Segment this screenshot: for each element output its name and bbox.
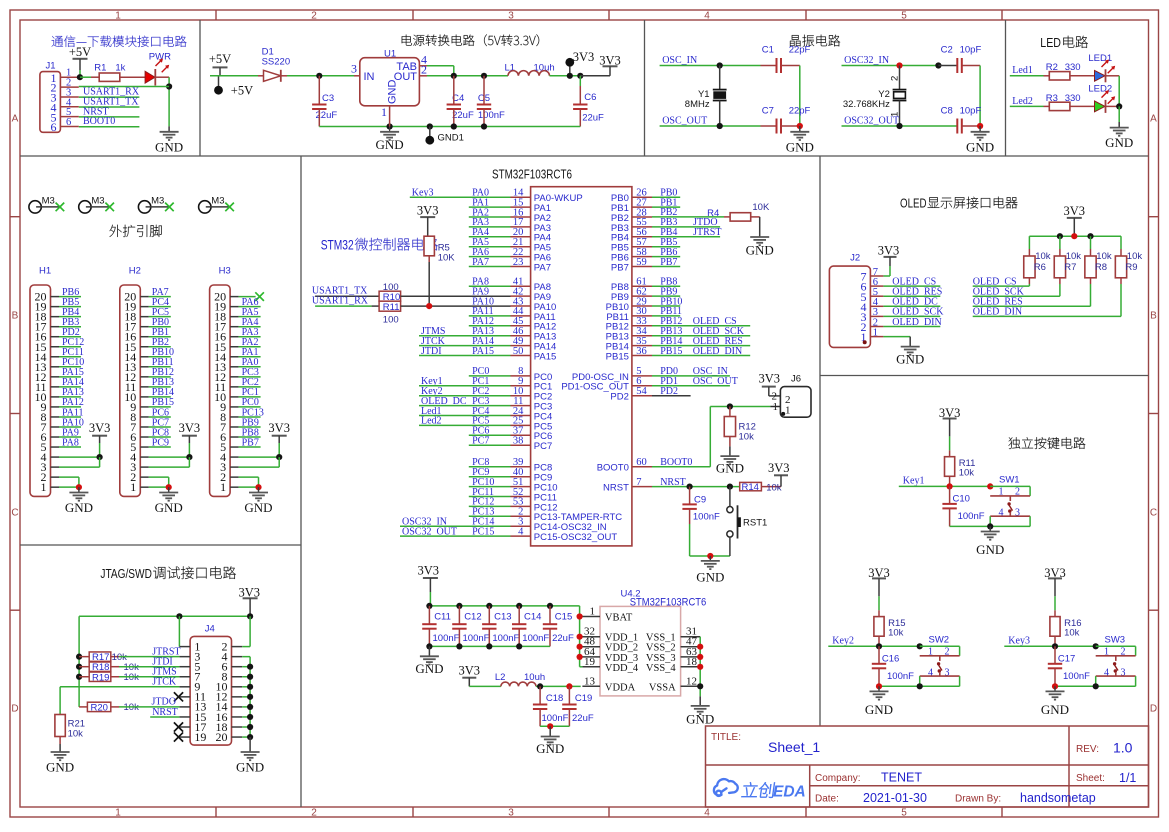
- capacitor C10 100nF: [942, 486, 984, 526]
- net label PA7 / wire H2 pin 20: [149, 287, 171, 298]
- svg-text:JTCK: JTCK: [152, 677, 177, 688]
- svg-text:R6: R6: [1034, 262, 1046, 273]
- wire H1 pin3: [59, 457, 100, 467]
- net label PA0 / wire H3 pin 13: [239, 357, 261, 368]
- switch SW1: [990, 475, 1030, 527]
- svg-text:C2: C2: [941, 45, 953, 56]
- svg-text:PC15-OSC32_OUT: PC15-OSC32_OUT: [534, 532, 618, 543]
- U4 pin 44 PA11 (left): [511, 306, 556, 323]
- svg-text:PB7: PB7: [611, 262, 629, 273]
- ground GND (SW2): [865, 686, 893, 717]
- svg-text:C: C: [11, 508, 18, 519]
- resistor R1 1k: [91, 62, 145, 81]
- wire bus down to J4 pin1: [178, 616, 180, 646]
- capacitor C14 100nF: [512, 606, 549, 647]
- U4 pin 33 PB12 (right): [606, 316, 652, 333]
- junction bus red (3V3): [1071, 233, 1077, 239]
- net label PB12 OLED_CS / wire: [652, 316, 750, 327]
- net label PA14 / wire H1 pin 11: [59, 377, 84, 388]
- svg-text:SW1: SW1: [999, 475, 1020, 486]
- net label PA8 / wire: [469, 277, 511, 288]
- inductor L1 10uh: [505, 63, 555, 76]
- power bar 3V3 (decoupling bus): [418, 564, 440, 606]
- svg-text:GND: GND: [865, 702, 893, 717]
- svg-text:22pF: 22pF: [789, 45, 811, 56]
- svg-text:R9: R9: [1125, 262, 1137, 273]
- power bar 3V3 (J6): [759, 371, 781, 396]
- mounting hole M3-4: [199, 196, 234, 214]
- ground GND (VDDA filter): [536, 726, 564, 756]
- svg-text:1.0: 1.0: [1113, 740, 1133, 756]
- net label OSC32_IN / wire: [842, 55, 939, 66]
- net label PB13 / wire H2 pin 11: [149, 377, 174, 388]
- net label PA5 / wire H3 pin 18: [239, 307, 261, 318]
- U4 pin 46 PA13 (left): [511, 326, 557, 343]
- power bar 3V3 (J2): [878, 244, 900, 267]
- svg-text:32.768KHz: 32.768KHz: [843, 99, 890, 110]
- junction J1 pin2 net: [166, 83, 172, 89]
- U4 pin 9 PC1 (left): [511, 376, 553, 393]
- svg-text:PC7: PC7: [534, 441, 552, 452]
- net label PA3 / wire H3 pin 16: [239, 327, 261, 338]
- svg-text:H3: H3: [219, 266, 231, 277]
- wire J4 right bus to GND: [242, 616, 250, 737]
- U4 pin 24 PC4 (left): [511, 406, 553, 423]
- junction J4 right bus y=666.7: [247, 664, 253, 670]
- capacitor C17 100nF: [1048, 646, 1090, 686]
- net label PA10 / wire H1 pin 7: [59, 417, 84, 428]
- U4.2 pin 48 VDD_2: [582, 636, 638, 654]
- net label PC10 / wire: [469, 477, 511, 488]
- junction C16 top: [876, 643, 882, 649]
- net label Led2 / wire PC5: [419, 416, 511, 427]
- ground GND (SW1): [976, 526, 1004, 557]
- block title 晶振电路: [790, 35, 840, 47]
- net label Key1 / wire PC1: [419, 376, 511, 387]
- junction C4: [451, 73, 457, 79]
- wire JTAG top bus: [79, 615, 250, 617]
- wire J2 pin1 to GND: [883, 336, 910, 338]
- svg-text:1: 1: [130, 480, 136, 494]
- net label OLED_DIN / wire J2 pin 2: [883, 317, 941, 328]
- junction VSSA: [697, 683, 703, 689]
- svg-text:10k: 10k: [1064, 627, 1080, 638]
- svg-text:GND: GND: [65, 500, 93, 515]
- connector H1: [30, 266, 59, 497]
- U4 pin 37 PC6 (left): [511, 426, 553, 443]
- svg-text:10pF: 10pF: [960, 45, 982, 56]
- net label PB10 / wire H2 pin 14: [149, 347, 174, 358]
- junction C19 top red: [566, 683, 572, 689]
- U4.2 pin 31 VSS_1: [646, 626, 700, 644]
- U4 pin 61 PB8 (right): [611, 277, 652, 294]
- svg-text:54: 54: [636, 386, 647, 397]
- svg-text:3: 3: [351, 62, 357, 76]
- net label PB1 / wire: [652, 197, 680, 208]
- net label PA9: [472, 286, 489, 297]
- junction C5: [481, 73, 487, 79]
- junction C4 bottom: [451, 123, 457, 129]
- capacitor C2 10pF: [938, 45, 981, 74]
- U4 pin 45 PA12 (left): [511, 316, 557, 333]
- net label NRST / wire J1-5: [79, 106, 140, 117]
- svg-text:M3: M3: [151, 196, 164, 207]
- svg-text:D: D: [1150, 704, 1157, 715]
- connector J2: [829, 253, 883, 348]
- svg-text:2: 2: [311, 11, 317, 22]
- wire J1-1 to R1: [80, 76, 91, 78]
- svg-text:60: 60: [636, 457, 647, 468]
- svg-text:+5V: +5V: [209, 52, 231, 66]
- wire L1 to 3V3 node: [550, 75, 581, 77]
- ground GND (J2): [896, 337, 924, 367]
- svg-text:Company:: Company:: [815, 773, 861, 784]
- net label PC9 / wire: [469, 467, 511, 478]
- net label Led1 / wire: [1010, 65, 1044, 76]
- svg-text:R4: R4: [707, 208, 719, 219]
- net label PB14 / wire H2 pin 10: [149, 387, 174, 398]
- U4 pin 51 PC10 (left): [511, 477, 558, 494]
- junction Y1 top: [717, 62, 723, 68]
- junction rail x=519.2: [516, 643, 522, 649]
- wire H1 pin1: [59, 486, 79, 488]
- svg-text:Led2: Led2: [1012, 96, 1033, 107]
- mounting hole M3-3: [138, 196, 173, 214]
- svg-text:GND: GND: [1105, 135, 1133, 150]
- svg-text:7: 7: [636, 477, 641, 488]
- svg-text:SW3: SW3: [1105, 635, 1126, 646]
- svg-text:VSS_4: VSS_4: [646, 663, 677, 674]
- svg-text:100nF: 100nF: [958, 511, 985, 522]
- U4 pin 25 PC5 (left): [511, 416, 553, 433]
- svg-text:USART1_RX: USART1_RX: [312, 295, 369, 306]
- svg-text:NRST: NRST: [152, 707, 178, 718]
- capacitor C11 100nF: [422, 606, 459, 647]
- U4 pin 6 PD1 (right): [561, 376, 652, 393]
- svg-text:3V3: 3V3: [573, 50, 595, 64]
- wire C2 to GND corner: [979, 66, 981, 127]
- junction SW3 pin1: [1093, 643, 1099, 649]
- wire J2 pin7 to 3V3: [883, 266, 890, 276]
- svg-text:6: 6: [51, 120, 57, 134]
- U4 pin 40 PC9 (left): [511, 467, 553, 484]
- resistor R21 10k: [55, 715, 85, 745]
- svg-text:GND: GND: [786, 140, 814, 155]
- wire H3 pin3: [239, 457, 280, 467]
- U4 pin 54 PD2 (right): [610, 386, 652, 403]
- svg-text:A: A: [12, 114, 19, 125]
- junction rail red (C18): [547, 723, 553, 729]
- svg-text:10pF: 10pF: [960, 105, 982, 116]
- svg-text:20: 20: [216, 730, 228, 744]
- U4 pin 22 PA6 (left): [511, 247, 552, 264]
- net label PB4 / wire H1 pin 18: [59, 307, 81, 318]
- net label OLED_RES / wire to R8: [973, 297, 1091, 308]
- wire decoupling ground rail: [429, 645, 550, 647]
- junction rail x=459.4: [456, 643, 462, 649]
- svg-text:Key2: Key2: [832, 636, 854, 647]
- junction cap bottom red (C17): [1052, 683, 1058, 689]
- junction bus J4 pin1: [176, 613, 182, 619]
- svg-text:GND: GND: [46, 760, 74, 775]
- junction bus C14: [516, 603, 522, 609]
- capacitor C8 10pF: [941, 105, 982, 133]
- net label PA2 / wire: [469, 207, 511, 218]
- wire LED1 down to LED2 node: [1118, 76, 1120, 107]
- net flag +5V ball: [214, 76, 253, 98]
- ground GND (R4): [746, 217, 774, 258]
- svg-text:GND: GND: [155, 140, 183, 155]
- power flag +5V (J1): [69, 45, 91, 77]
- junction Y2 top red: [896, 62, 902, 68]
- net label PB8 / wire H3 pin 6: [239, 427, 261, 438]
- power bar 3V3 (power block): [599, 54, 621, 76]
- U4 pin 11 PC3 (left): [511, 396, 553, 413]
- ground GND (Y1): [786, 126, 814, 155]
- net label PC3 / wire H3 pin 12: [239, 367, 261, 378]
- block title LED电路: [1040, 36, 1088, 50]
- capacitor C5 100nF: [477, 76, 505, 127]
- svg-text:C19: C19: [575, 693, 592, 704]
- net label PA2 / wire H3 pin 15: [239, 337, 261, 348]
- junction on J1 pin1: [77, 74, 83, 80]
- net label PA15 / wire H1 pin 12: [59, 367, 84, 378]
- wire H2 pin4 to 3V3: [149, 456, 190, 458]
- U4.2 pin 47 VSS_2: [646, 636, 700, 654]
- diode D1 SS220: [258, 47, 290, 82]
- U4 pin 21 PA5 (left): [511, 237, 552, 254]
- net label Key1 / wire: [899, 476, 990, 487]
- svg-text:3V3: 3V3: [759, 371, 781, 385]
- net label OLED_SCK / wire to R7: [973, 287, 1060, 298]
- svg-text:J6: J6: [791, 374, 801, 385]
- net label PA3 / wire: [469, 217, 511, 228]
- wire U1 TAB to OUT node: [427, 66, 454, 76]
- svg-text:10k: 10k: [1035, 251, 1051, 262]
- net label PA13 / wire H1 pin 10: [59, 387, 84, 398]
- net flag 3V3 ball: [565, 50, 594, 79]
- power bar 3V3 (R5): [417, 204, 439, 237]
- wire 3V3 to L2: [469, 685, 501, 687]
- svg-text:GND: GND: [155, 500, 183, 515]
- junction H1 GND red: [76, 484, 82, 490]
- svg-text:100nF: 100nF: [478, 110, 505, 121]
- svg-text:3V3: 3V3: [878, 244, 900, 258]
- svg-text:C11: C11: [434, 612, 451, 623]
- svg-text:GND: GND: [415, 661, 443, 676]
- junction C17 top: [1052, 643, 1058, 649]
- svg-text:3V3: 3V3: [1064, 204, 1086, 218]
- svg-text:4: 4: [704, 11, 710, 22]
- U4 pin 27 PB1 (right): [611, 197, 652, 214]
- svg-text:10k: 10k: [1127, 251, 1143, 262]
- U4 pin 53 PC12 (left): [511, 497, 558, 514]
- svg-text:10k: 10k: [68, 728, 84, 739]
- svg-text:1: 1: [590, 606, 596, 618]
- svg-text:C6: C6: [584, 92, 596, 103]
- svg-text:5: 5: [901, 11, 907, 22]
- svg-text:C7: C7: [762, 105, 774, 116]
- svg-text:GND: GND: [536, 741, 564, 756]
- svg-text:GND: GND: [976, 542, 1004, 557]
- net label USART1_RX / wire J1-3: [79, 87, 140, 98]
- inductor L2 10uh: [495, 672, 545, 687]
- svg-text:IN: IN: [364, 71, 375, 83]
- net label PB4 JTRST / wire: [652, 227, 721, 238]
- regulator U1: [351, 48, 427, 119]
- capacitor C16 100nF: [872, 646, 914, 686]
- net label OLED_CS / wire to R6: [973, 276, 1030, 287]
- net label PA11 / wire H1 pin 8: [59, 407, 84, 418]
- switch SW3: [1096, 635, 1136, 687]
- ground GND (H1): [65, 487, 93, 515]
- junction J4 right bus y=676.75: [247, 674, 253, 680]
- U4 pin 17 PA3 (left): [511, 217, 552, 234]
- resistor R7 10k: [1054, 236, 1081, 296]
- svg-text:PA7: PA7: [534, 262, 551, 273]
- junction J4 right bus y=696.85: [247, 694, 253, 700]
- svg-text:GND: GND: [387, 80, 399, 105]
- net label PB15 / wire H2 pin 9: [149, 397, 174, 408]
- svg-text:3V3: 3V3: [768, 461, 790, 475]
- U4.2 pin 32 VDD_1: [582, 626, 638, 644]
- svg-text:4: 4: [704, 808, 710, 819]
- net label PB7 / wire: [652, 257, 680, 268]
- ground GND (H2): [155, 487, 183, 515]
- svg-text:8MHz: 8MHz: [685, 99, 710, 110]
- no-connect X J4 pin 11: [174, 692, 183, 701]
- svg-text:VSSA: VSSA: [649, 682, 676, 693]
- net label OLED_SCK / wire J2 pin 3: [883, 307, 944, 318]
- capacitor C1 22pF: [761, 45, 811, 74]
- resistor R17 10k: [79, 652, 127, 663]
- junction J4 right bus y=737.05: [247, 734, 253, 740]
- net label PB15 OLED_DIN / wire: [652, 346, 750, 357]
- junction H3 GND red: [255, 484, 261, 490]
- ground GND (H3): [244, 487, 272, 515]
- svg-text:M3: M3: [211, 196, 224, 207]
- U4 pin 35 PB14 (right): [606, 336, 652, 353]
- resistor R2 330: [1044, 62, 1095, 80]
- svg-text:59: 59: [636, 257, 647, 268]
- net flag GND1 ball: [425, 123, 464, 144]
- svg-text:VDDA: VDDA: [605, 682, 636, 693]
- svg-text:RST1: RST1: [743, 518, 767, 529]
- capacitor C7 22pF: [761, 105, 811, 133]
- svg-text:22uF: 22uF: [552, 633, 574, 644]
- net label OLED_DC / wire J2 pin 4: [883, 297, 940, 308]
- capacitor C9 100nF: [682, 487, 720, 524]
- block title 通信—下载模块接口电路: [52, 36, 187, 47]
- resistor R18 10k: [79, 662, 139, 673]
- svg-text:LED1: LED1: [1088, 53, 1112, 64]
- svg-text:SW2: SW2: [929, 635, 950, 646]
- net label PA8 / wire H1 pin 5: [59, 437, 81, 448]
- net label PC7 / wire: [469, 436, 511, 447]
- wire U1 OUT to L1: [427, 75, 508, 77]
- svg-text:100nF: 100nF: [463, 633, 490, 644]
- svg-text:3V3: 3V3: [179, 421, 201, 435]
- svg-text:10K: 10K: [438, 253, 456, 264]
- net label OLED_RES / wire J2 pin 5: [883, 287, 942, 298]
- resistor R3 330: [1044, 93, 1095, 111]
- svg-text:1: 1: [220, 480, 226, 494]
- block title STM32微控制器电路: [321, 237, 438, 253]
- net label PB7 / wire H3 pin 5: [239, 437, 261, 448]
- svg-text:A: A: [1150, 114, 1157, 125]
- U4 pin 4 PC15 (left): [511, 526, 618, 543]
- U4 pin 15 PA1 (left): [511, 197, 552, 214]
- ground GND (Y2): [966, 126, 994, 155]
- junction H1 3V3: [97, 454, 103, 460]
- svg-text:1: 1: [928, 647, 933, 658]
- svg-text:5: 5: [901, 808, 907, 819]
- mounting hole M3-2: [79, 196, 114, 214]
- resistor R8 10k: [1085, 236, 1112, 306]
- resistor R9 10k: [1115, 236, 1142, 316]
- svg-text:R1: R1: [94, 62, 106, 73]
- U4.2 pin 1 VBAT: [582, 606, 633, 624]
- junction pullup R17: [76, 654, 82, 660]
- U4 pin 55 PB3 (right): [611, 217, 652, 234]
- svg-text:6: 6: [66, 117, 71, 128]
- junction rail (SW3): [1093, 683, 1099, 689]
- svg-text:1: 1: [381, 105, 387, 119]
- svg-text:+5V: +5V: [231, 84, 253, 98]
- junction C2 left: [935, 62, 941, 68]
- junction J4 right bus y=716.95: [247, 714, 253, 720]
- U4 pin 3 PC14 (left): [511, 517, 607, 534]
- svg-text:C8: C8: [941, 105, 953, 116]
- power bar 3V3 (VDDA filter): [459, 664, 481, 687]
- svg-text:R8: R8: [1095, 262, 1107, 273]
- wire ground rail (power block): [319, 126, 580, 128]
- junction J4 right bus y=727: [247, 724, 253, 730]
- net label JTDI / wire PA15: [419, 346, 511, 357]
- U4 pin 23 PA7 (left): [511, 257, 552, 274]
- svg-text:10k: 10k: [739, 431, 755, 442]
- title block: [706, 726, 1149, 807]
- junction H2 3V3: [186, 454, 192, 460]
- block title OLED显示屏接口电器: [900, 197, 1017, 211]
- svg-text:R14: R14: [742, 482, 759, 493]
- net label Key2 / wire: [828, 636, 919, 647]
- net label PB8 / wire: [652, 277, 680, 288]
- capacitor C12 100nF: [452, 606, 489, 647]
- svg-text:1: 1: [115, 808, 121, 819]
- wire H2 pin5: [0, 0, 1, 1]
- junction VDD red y=636.7: [577, 634, 583, 640]
- net label PB14 OLED_RES / wire: [652, 336, 750, 347]
- resistor R19 10k: [79, 672, 139, 683]
- svg-text:10uh: 10uh: [524, 672, 545, 683]
- block title JTAG/SWD调试接口电路: [100, 566, 236, 581]
- net label PA12 / wire H1 pin 9: [59, 397, 84, 408]
- svg-text:PA15: PA15: [534, 351, 557, 362]
- U4 pin 16 PA2 (left): [511, 207, 552, 224]
- capacitor C19 22uF: [562, 686, 594, 726]
- svg-text:OSC32_OUT: OSC32_OUT: [844, 115, 899, 126]
- U4.2 pin 13 VDDA: [582, 675, 635, 693]
- wire 3V3 decoupling bus: [429, 606, 579, 617]
- svg-text:M3: M3: [42, 196, 55, 207]
- net label PC2 / wire H3 pin 11: [239, 377, 261, 388]
- wire SW1 ground rail: [950, 525, 1031, 527]
- net label PC9 / wire H2 pin 5: [149, 437, 171, 448]
- junction SW2 pin1: [917, 643, 923, 649]
- junction J2 pin1 dot: [863, 340, 867, 344]
- svg-text:100nF: 100nF: [542, 713, 569, 724]
